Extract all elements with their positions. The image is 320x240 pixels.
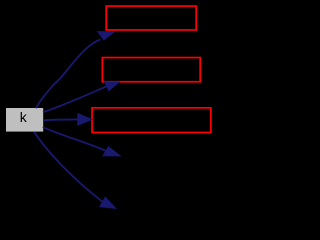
node box 1 (red, top right) xyxy=(106,6,196,30)
node box 2 (red, middle right) xyxy=(102,58,200,82)
edge k->hidden node 5 xyxy=(34,132,103,202)
edge k->box2 xyxy=(43,86,107,112)
node k (gray box) xyxy=(6,108,43,132)
arrowhead edge1 xyxy=(98,32,115,40)
edge k->hidden node 4 xyxy=(43,127,106,151)
svg-text:k: k xyxy=(20,109,28,125)
node box 3 (red, right of k) xyxy=(92,108,211,133)
edge k->box3 xyxy=(43,118,78,121)
arrowhead edge3 xyxy=(78,114,92,126)
arrowhead edge2 xyxy=(105,82,120,91)
edge k->box1 xyxy=(36,40,101,109)
arrowhead edge5 xyxy=(100,197,116,208)
arrowhead edge4 xyxy=(103,147,120,156)
